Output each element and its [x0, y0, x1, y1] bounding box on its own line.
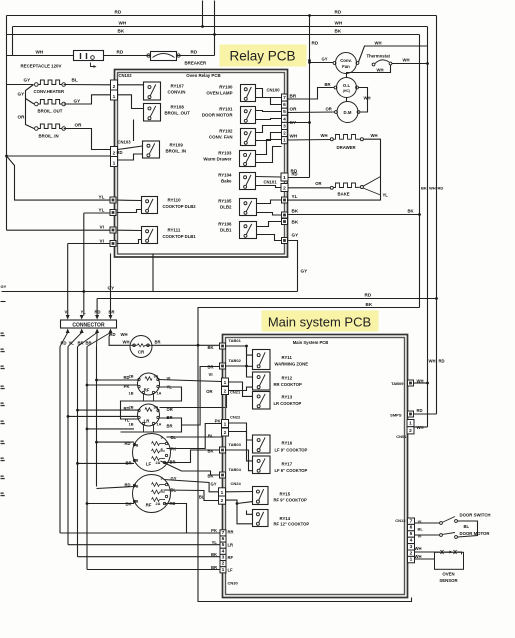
svg-text:1: 1 — [113, 94, 116, 100]
svg-text:3: 3 — [161, 477, 163, 481]
svg-text:RY101: RY101 — [219, 107, 233, 112]
svg-text:7: 7 — [222, 530, 225, 536]
svg-text:PK: PK — [211, 528, 217, 533]
svg-text:CN24: CN24 — [231, 481, 242, 486]
svg-text:OR: OR — [326, 107, 332, 112]
svg-text:BR: BR — [290, 94, 297, 99]
svg-text:7: 7 — [410, 518, 413, 524]
svg-text:VI: VI — [418, 534, 422, 539]
svg-text:RY106: RY106 — [218, 222, 232, 227]
svg-text:WH: WH — [429, 186, 436, 191]
svg-text:BK: BK — [292, 209, 299, 214]
svg-text:BR: BR — [211, 565, 217, 570]
svg-text:BR: BR — [109, 310, 115, 315]
svg-text:YL: YL — [99, 195, 105, 200]
svg-text:BROIL_IN: BROIL_IN — [39, 134, 59, 139]
svg-text:1: 1 — [409, 421, 412, 427]
svg-text:Main System PCB: Main System PCB — [293, 340, 329, 345]
svg-text:RY102: RY102 — [219, 129, 233, 134]
svg-text:BR: BR — [207, 365, 213, 370]
svg-text:WH: WH — [335, 21, 343, 26]
svg-text:BL: BL — [418, 527, 424, 532]
svg-text:LF: LF — [228, 568, 234, 573]
svg-text:BK: BK — [366, 302, 373, 307]
svg-text:3: 3 — [410, 544, 413, 550]
svg-text:CR: CR — [138, 350, 145, 355]
svg-text:OR: OR — [315, 181, 321, 186]
svg-text:RD: RD — [365, 293, 372, 298]
svg-text:2: 2 — [113, 150, 116, 156]
svg-text:BL: BL — [199, 495, 205, 500]
svg-text:CONV.IN: CONV.IN — [168, 90, 186, 95]
svg-text:Fan: Fan — [342, 64, 350, 69]
svg-text:RY108: RY108 — [171, 105, 185, 110]
svg-text:TAB09: TAB09 — [391, 381, 404, 386]
svg-text:7B: 7B — [134, 444, 139, 448]
svg-text:WH: WH — [364, 96, 371, 101]
svg-text:3: 3 — [283, 123, 286, 129]
svg-text:OVEN LAMP: OVEN LAMP — [206, 91, 232, 96]
svg-text:BK: BK — [408, 209, 414, 214]
svg-text:2: 2 — [221, 498, 224, 504]
svg-text:RD: RD — [439, 359, 445, 364]
svg-text:6: 6 — [410, 525, 413, 531]
svg-text:RD: RD — [292, 172, 298, 177]
svg-text:DOOR MOTOR: DOOR MOTOR — [460, 531, 491, 536]
svg-text:RY109: RY109 — [170, 143, 184, 148]
svg-text:BK: BK — [211, 552, 217, 557]
svg-text:CN22: CN22 — [230, 415, 241, 420]
svg-text:WH: WH — [415, 554, 422, 559]
svg-text:RY110: RY110 — [168, 198, 182, 203]
svg-text:BR: BR — [155, 340, 161, 345]
svg-text:1: 1 — [222, 567, 225, 573]
svg-text:OR: OR — [18, 115, 26, 120]
svg-text:BK: BK — [207, 474, 213, 479]
svg-text:CN01: CN01 — [396, 434, 407, 439]
svg-text:GY: GY — [74, 99, 81, 104]
svg-text:RD: RD — [123, 406, 129, 411]
svg-text:DOOR MOTOR: DOOR MOTOR — [202, 113, 233, 118]
svg-text:Thermostat: Thermostat — [367, 54, 391, 59]
svg-text:GY: GY — [321, 57, 327, 62]
svg-text:WH: WH — [403, 58, 410, 63]
svg-text:YL: YL — [124, 418, 130, 423]
svg-text:LF 9" COOKTOP: LF 9" COOKTOP — [275, 447, 308, 452]
svg-text:3A: 3A — [154, 375, 159, 379]
svg-text:RD: RD — [115, 10, 122, 15]
svg-text:RECEPTACLE 120V: RECEPTACLE 120V — [21, 64, 62, 69]
svg-text:LF 6" COOKTOP: LF 6" COOKTOP — [275, 468, 308, 473]
svg-text:CONV.HEATER: CONV.HEATER — [34, 89, 65, 94]
svg-text:1B: 1B — [134, 500, 139, 504]
svg-text:7B: 7B — [134, 485, 139, 489]
svg-text:OVEN: OVEN — [442, 572, 454, 577]
svg-text:CN30: CN30 — [228, 581, 239, 586]
svg-text:GY: GY — [18, 92, 25, 97]
svg-text:YL: YL — [292, 194, 298, 199]
svg-text:RR COOKTOP: RR COOKTOP — [274, 382, 303, 387]
svg-text:BK: BK — [207, 345, 213, 350]
svg-text:CONNECTOR: CONNECTOR — [72, 323, 105, 329]
svg-text:CN100: CN100 — [267, 88, 281, 93]
svg-text:Conv.: Conv. — [340, 58, 352, 63]
svg-text:2: 2 — [224, 430, 227, 436]
svg-text:Relay PCB: Relay PCB — [229, 49, 295, 64]
svg-text:GY: GY — [1, 284, 7, 289]
svg-text:RF 9" COOKTOP: RF 9" COOKTOP — [274, 497, 308, 502]
svg-text:BROIL_IN: BROIL_IN — [166, 149, 187, 154]
svg-text:COOKTOP DLB1: COOKTOP DLB1 — [163, 234, 197, 239]
svg-text:YL: YL — [383, 193, 389, 198]
svg-text:Main system PCB: Main system PCB — [268, 315, 371, 330]
svg-text:RD: RD — [438, 186, 444, 191]
svg-text:4: 4 — [222, 548, 225, 554]
svg-text:O.L: O.L — [343, 83, 351, 88]
svg-text:2: 2 — [113, 84, 116, 90]
svg-text:BR: BR — [325, 82, 331, 87]
svg-text:CONV. FAN: CONV. FAN — [209, 135, 233, 140]
svg-text:VI: VI — [100, 239, 104, 244]
svg-text:GY: GY — [210, 482, 216, 487]
svg-text:BAKE: BAKE — [338, 192, 350, 197]
svg-text:1B: 1B — [134, 459, 139, 463]
svg-text:2A: 2A — [156, 502, 161, 506]
svg-text:RY13: RY13 — [282, 395, 293, 400]
svg-text:1: 1 — [221, 490, 224, 496]
svg-text:2: 2 — [224, 388, 227, 394]
svg-text:OR: OR — [290, 107, 298, 112]
svg-text:TAB01: TAB01 — [229, 338, 242, 343]
svg-text:TAB03: TAB03 — [229, 442, 242, 447]
svg-text:RY100: RY100 — [219, 85, 233, 90]
svg-text:LR COOKTOP: LR COOKTOP — [274, 401, 302, 406]
svg-text:BROIL_OUT: BROIL_OUT — [38, 109, 63, 114]
svg-text:5: 5 — [410, 531, 413, 537]
svg-text:3: 3 — [222, 554, 225, 560]
svg-text:1: 1 — [283, 138, 286, 144]
svg-text:BREAKER: BREAKER — [185, 61, 208, 66]
svg-text:WH: WH — [123, 340, 130, 345]
svg-text:CN103: CN103 — [118, 140, 132, 145]
svg-text:D.M: D.M — [344, 110, 352, 115]
svg-text:GY: GY — [292, 233, 299, 238]
svg-text:2: 2 — [410, 550, 413, 556]
svg-text:DOOR SWITCH: DOOR SWITCH — [460, 513, 491, 518]
svg-text:1: 1 — [224, 421, 227, 427]
svg-text:PK: PK — [124, 384, 130, 389]
svg-text:BR: BR — [125, 461, 131, 466]
svg-text:LR: LR — [228, 543, 234, 548]
svg-text:3A: 3A — [154, 406, 159, 410]
svg-text:DLB1: DLB1 — [220, 228, 232, 233]
svg-text:3: 3 — [161, 436, 163, 440]
svg-text:RY11: RY11 — [282, 355, 293, 360]
svg-text:SMPS: SMPS — [390, 413, 402, 418]
svg-text:WH: WH — [36, 50, 44, 55]
svg-text:WH: WH — [119, 21, 127, 26]
svg-text:RY15: RY15 — [280, 492, 291, 497]
svg-text:5: 5 — [222, 542, 225, 548]
svg-text:GY: GY — [301, 269, 308, 274]
svg-text:4: 4 — [283, 116, 286, 122]
svg-text:2A: 2A — [156, 461, 161, 465]
svg-text:BK: BK — [335, 29, 342, 34]
svg-text:YL: YL — [418, 520, 424, 525]
svg-text:7: 7 — [283, 95, 286, 101]
svg-text:RD: RD — [417, 408, 423, 413]
svg-text:1: 1 — [224, 380, 227, 386]
svg-text:SENSOR: SENSOR — [439, 578, 458, 583]
svg-text:BK: BK — [118, 29, 125, 34]
svg-text:RD: RD — [335, 10, 342, 15]
svg-text:RD: RD — [110, 332, 116, 337]
svg-text:RD: RD — [117, 150, 123, 155]
svg-text:RY107: RY107 — [171, 84, 185, 89]
svg-text:1B: 1B — [129, 423, 134, 427]
svg-text:TAB02: TAB02 — [229, 358, 242, 363]
svg-text:2: 2 — [409, 428, 412, 434]
svg-text:RR: RR — [228, 530, 234, 535]
svg-text:RY17: RY17 — [282, 462, 293, 467]
svg-text:RY103: RY103 — [218, 151, 232, 156]
svg-text:GY: GY — [24, 78, 31, 83]
svg-text:YL: YL — [99, 208, 105, 213]
svg-text:1: 1 — [410, 557, 413, 563]
svg-text:OR: OR — [206, 389, 212, 394]
svg-text:WH: WH — [321, 133, 328, 138]
svg-text:CN102: CN102 — [119, 73, 133, 78]
svg-text:RY105: RY105 — [218, 199, 232, 204]
svg-text:RD: RD — [124, 483, 130, 488]
svg-text:1A: 1A — [157, 423, 162, 427]
svg-text:2: 2 — [283, 185, 286, 191]
svg-text:BK: BK — [292, 220, 299, 225]
svg-text:YL: YL — [212, 540, 218, 545]
svg-text:RD: RD — [191, 50, 198, 55]
svg-text:BK: BK — [421, 186, 427, 191]
svg-text:RF: RF — [146, 503, 152, 508]
svg-text:VI: VI — [209, 372, 213, 377]
svg-text:Oven Relay PCB: Oven Relay PCB — [186, 73, 220, 78]
svg-text:RD: RD — [312, 41, 319, 46]
svg-text:DLB2: DLB2 — [220, 205, 232, 210]
svg-text:COOKTOP DLB2: COOKTOP DLB2 — [163, 204, 197, 209]
svg-text:PK: PK — [215, 419, 221, 424]
svg-text:RF 12" COOKTOP: RF 12" COOKTOP — [274, 522, 310, 527]
svg-text:RD: RD — [124, 441, 130, 446]
svg-text:VI: VI — [100, 225, 104, 230]
svg-text:Bake: Bake — [221, 179, 232, 184]
svg-text:(HC): (HC) — [343, 89, 350, 93]
svg-text:2: 2 — [283, 131, 286, 137]
svg-text:TAB04: TAB04 — [229, 467, 242, 472]
svg-text:6: 6 — [222, 536, 225, 542]
svg-text:1: 1 — [113, 160, 116, 166]
svg-text:1: 1 — [283, 175, 286, 181]
svg-text:BR: BR — [167, 424, 173, 429]
svg-text:BK: BK — [207, 449, 213, 454]
svg-text:BL: BL — [208, 434, 214, 439]
svg-text:RD: RD — [123, 375, 129, 380]
svg-text:RF: RF — [228, 555, 234, 560]
svg-text:WARMING ZONE: WARMING ZONE — [275, 361, 309, 366]
svg-text:WH: WH — [377, 68, 384, 73]
svg-text:LF: LF — [146, 462, 152, 467]
svg-text:RY104: RY104 — [218, 173, 232, 178]
svg-text:OR: OR — [75, 123, 83, 128]
svg-text:WH: WH — [375, 41, 382, 46]
svg-text:WH: WH — [415, 546, 422, 551]
svg-text:WH: WH — [371, 133, 378, 138]
svg-text:BL: BL — [464, 524, 470, 529]
svg-text:RY12: RY12 — [282, 376, 293, 381]
svg-text:WH: WH — [121, 332, 128, 337]
svg-text:RD: RD — [95, 310, 101, 315]
svg-text:CN101: CN101 — [264, 180, 278, 185]
svg-text:BK: BK — [125, 502, 131, 507]
svg-text:1A: 1A — [157, 392, 162, 396]
svg-text:WH: WH — [290, 134, 298, 139]
svg-text:WH: WH — [429, 359, 436, 364]
svg-text:5: 5 — [283, 109, 286, 115]
svg-text:6: 6 — [283, 102, 286, 108]
svg-text:CN13: CN13 — [395, 518, 406, 523]
svg-text:2: 2 — [222, 561, 225, 567]
svg-text:RD: RD — [117, 50, 124, 55]
svg-text:4: 4 — [410, 538, 413, 544]
svg-text:1B: 1B — [129, 392, 134, 396]
svg-text:RY14: RY14 — [280, 516, 291, 521]
svg-text:RY16: RY16 — [282, 441, 293, 446]
svg-text:Warm Drawer: Warm Drawer — [203, 157, 231, 162]
svg-text:DRAWER: DRAWER — [337, 145, 357, 150]
svg-text:RY111: RY111 — [168, 228, 181, 233]
svg-text:BL: BL — [72, 78, 78, 83]
svg-text:BROIL_OUT: BROIL_OUT — [165, 111, 191, 116]
